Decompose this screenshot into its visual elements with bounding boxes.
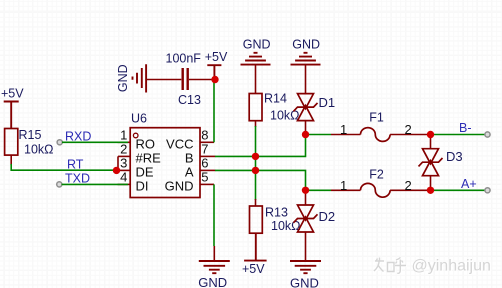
wire TXD	[62, 183, 128, 185]
svg-text:GND: GND	[290, 276, 319, 288]
wire C13 to +5V node	[189, 79, 215, 81]
wire R14 down to R13 through B and A rows	[255, 121, 257, 127]
wire to B- terminal	[431, 134, 486, 136]
ground (rotated, left of C13)	[116, 64, 146, 92]
wire GND to C13	[146, 79, 181, 81]
node junction +5V/C13	[211, 76, 218, 83]
svg-text:GND: GND	[165, 179, 194, 194]
svg-text:GND: GND	[292, 37, 320, 51]
svg-text:GND: GND	[198, 275, 227, 288]
svg-text:1: 1	[340, 178, 347, 193]
wire RXD	[62, 141, 128, 143]
svg-text:+5V: +5V	[1, 87, 24, 101]
svg-text:10kΩ: 10kΩ	[24, 142, 54, 156]
diode D1 (TVS)	[305, 65, 307, 94]
resistor R13	[250, 206, 301, 234]
wire pin2-pin3 link	[117, 156, 119, 170]
power +5V (top-left)	[1, 87, 24, 129]
pin 6 A	[185, 156, 215, 180]
svg-text:TXD: TXD	[65, 171, 90, 185]
svg-text:RXD: RXD	[65, 129, 91, 143]
svg-text:D2: D2	[319, 209, 336, 224]
node junction D2/F2	[302, 187, 309, 194]
pin 1 stub	[118, 141, 131, 143]
svg-text:5: 5	[201, 170, 208, 185]
node A+ terminal	[485, 188, 490, 193]
wire R15 to RT row	[10, 155, 12, 165]
ground (below U6)	[198, 246, 230, 288]
svg-text:GND: GND	[116, 64, 130, 92]
svg-text:A: A	[185, 165, 194, 180]
wire GND to R14	[255, 65, 257, 94]
wire A line pin6 to corner	[215, 170, 306, 191]
fuse F1	[331, 111, 431, 142]
ground (below D2)	[290, 261, 321, 288]
svg-text:B-: B-	[459, 121, 472, 135]
node TXD terminal	[57, 182, 62, 187]
wire pin 5 to GND	[213, 184, 215, 246]
wire B line pin7 to corner	[215, 135, 306, 158]
svg-text:+5V: +5V	[242, 262, 265, 276]
svg-text:R14: R14	[264, 92, 287, 106]
svg-text:100nF: 100nF	[166, 51, 202, 65]
svg-text:+5V: +5V	[205, 50, 228, 64]
svg-text:DI: DI	[136, 179, 149, 194]
svg-text:U6: U6	[131, 112, 147, 126]
svg-text:R13: R13	[265, 206, 288, 220]
svg-text:4: 4	[120, 170, 127, 185]
diode D3 (TVS)	[430, 135, 432, 149]
fuse F2	[331, 168, 431, 198]
pin 2 #RE	[120, 142, 161, 166]
svg-text:A+: A+	[461, 177, 477, 191]
svg-text:2: 2	[405, 178, 412, 193]
svg-text:F2: F2	[369, 168, 384, 182]
svg-text:DE: DE	[136, 165, 154, 180]
node junction R14/B line	[252, 153, 259, 160]
svg-text:GND: GND	[243, 37, 271, 51]
ground (above R14)	[241, 37, 271, 64]
svg-text:D3: D3	[446, 149, 463, 164]
wire F2 node to fuse	[306, 189, 332, 191]
pin 2 stub	[118, 155, 130, 157]
IC U6 body	[130, 112, 200, 198]
wire +5V node down to pin 8	[213, 80, 215, 143]
pin 8 VCC	[166, 127, 214, 151]
power +5V (below R13)	[242, 233, 267, 275]
pin 7 B	[185, 142, 215, 166]
svg-text:8: 8	[201, 127, 208, 142]
svg-text:VCC: VCC	[166, 137, 193, 152]
svg-text:RO: RO	[136, 137, 156, 152]
svg-text:C13: C13	[178, 93, 201, 107]
watermark 知乎 @yinhaijun	[375, 259, 407, 275]
capacitor C13	[166, 51, 202, 107]
svg-text:2: 2	[120, 142, 127, 157]
ground (above D1)	[291, 37, 321, 64]
pin 4 stub	[118, 183, 131, 185]
svg-text:#RE: #RE	[136, 151, 162, 166]
svg-text:R15: R15	[19, 128, 42, 142]
node RXD terminal	[57, 140, 62, 145]
node junction D1/F1	[302, 131, 309, 138]
svg-text:D1: D1	[319, 95, 336, 110]
node B- terminal	[485, 132, 490, 137]
diode D2 (TVS)	[305, 190, 307, 205]
pin 5 GND	[165, 170, 214, 194]
pin 4 DI	[120, 170, 148, 194]
svg-text:2: 2	[405, 122, 412, 137]
node junction RT/pin3	[113, 167, 120, 174]
wire F1 node to fuse	[306, 134, 332, 136]
node junction R13/A line	[252, 167, 259, 174]
svg-text:3: 3	[120, 156, 127, 171]
svg-text:F1: F1	[369, 111, 384, 125]
power +5V (above C13 node)	[205, 50, 228, 79]
svg-text:@yinhaijun: @yinhaijun	[412, 258, 491, 275]
node junction F2/D3	[427, 187, 434, 194]
resistor R14	[249, 92, 299, 123]
svg-text:B: B	[185, 151, 194, 166]
pin 3 stub	[118, 169, 130, 171]
wire to A+ terminal	[431, 189, 486, 191]
svg-text:7: 7	[201, 142, 208, 157]
svg-text:1: 1	[120, 127, 127, 142]
resistor R15	[5, 128, 54, 156]
pin 3 DE	[120, 156, 154, 180]
node junction F1/D3	[427, 131, 434, 138]
svg-text:6: 6	[201, 156, 208, 171]
svg-text:1: 1	[340, 122, 347, 137]
svg-text:RT: RT	[67, 157, 84, 171]
pin 1 RO	[120, 127, 155, 151]
